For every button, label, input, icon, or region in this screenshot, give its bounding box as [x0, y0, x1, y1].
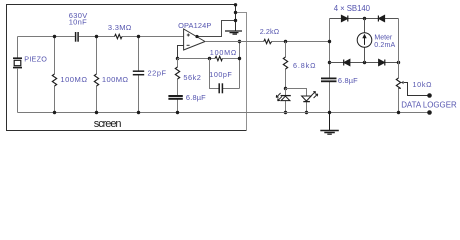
node: output / bridge left top	[328, 40, 331, 43]
piezo PIEZO	[13, 58, 22, 67]
capacitor 100pF	[219, 83, 222, 93]
svg-text:OPA124P: OPA124P	[178, 21, 211, 30]
node: bottom rail junction (100M-1)	[53, 111, 56, 114]
wire: 100M resistor 2 branch	[96, 37, 98, 113]
wire: 100M resistor 1 branch	[54, 37, 56, 113]
op-amp U1 OPA124P	[184, 29, 205, 50]
svg-text:10kΩ: 10kΩ	[413, 80, 433, 89]
LED D1 (cathode up)	[276, 93, 291, 101]
svg-text:PIEZO: PIEZO	[24, 54, 47, 63]
node: ground rail junction	[328, 111, 331, 114]
capacitor 6.8uF (smoothing)	[321, 78, 337, 81]
node: rail / 100M-1 junction	[53, 35, 56, 38]
node: guard tap on op-amp	[195, 35, 198, 38]
svg-text:100MΩ: 100MΩ	[210, 48, 237, 57]
node: rail / 22pF junction	[137, 35, 140, 38]
svg-text:6.8µF: 6.8µF	[186, 93, 206, 102]
diode D3 SB140 (top-left)	[342, 16, 348, 22]
ground (main)	[320, 113, 339, 135]
node: rail / 100M-2 junction	[95, 35, 98, 38]
wire: inverting input branch	[178, 46, 184, 59]
resistor 2.2k zigzag	[264, 39, 272, 43]
wire: LED1 stem	[285, 89, 287, 113]
node: data logger lower terminal	[427, 110, 432, 115]
wire: meter stem	[364, 19, 366, 63]
node: LED junction	[284, 87, 287, 90]
svg-text:100pF: 100pF	[209, 70, 232, 79]
svg-text:6.8kΩ: 6.8kΩ	[293, 61, 316, 70]
capacitor 22pF	[133, 71, 144, 75]
node: inverting input / feedback junction	[176, 57, 179, 60]
svg-text:56k2: 56k2	[183, 73, 201, 82]
node: bridge top center	[363, 17, 366, 20]
svg-text:screen: screen	[94, 118, 122, 130]
resistor 100M (2) zigzag	[94, 74, 98, 86]
diode D5 SB140 (bottom-left)	[344, 60, 350, 66]
node: output / feedback junction	[238, 40, 241, 43]
svg-text:4 × SB140: 4 × SB140	[334, 4, 371, 13]
LED D2 (cathode down)	[302, 91, 318, 101]
node: guard tap on shield	[234, 19, 237, 22]
meter M1 0.2mA	[357, 33, 372, 48]
wire: bridge right branch	[398, 19, 400, 113]
wire: LED2 stem	[286, 89, 307, 113]
wire: 100pF loop	[210, 42, 240, 89]
node: data logger upper terminal	[427, 93, 432, 98]
wire: main input rail	[18, 36, 184, 38]
wire: 56k2 branch	[177, 59, 179, 113]
resistor 56k2 zigzag	[175, 67, 179, 79]
resistor 100M (1) zigzag	[52, 74, 56, 86]
capacitor 10nF 630V	[76, 32, 79, 42]
resistor 3.3M zigzag	[115, 34, 123, 38]
svg-text:22pF: 22pF	[148, 68, 167, 77]
svg-text:6.8µF: 6.8µF	[338, 76, 358, 85]
svg-text:0.2mA: 0.2mA	[374, 42, 395, 49]
resistor 100M feedback zigzag	[215, 56, 222, 60]
svg-text:DATA LOGGER: DATA LOGGER	[401, 99, 457, 109]
resistor 6.8k zigzag	[283, 57, 287, 69]
potentiometer 10k zigzag	[396, 78, 400, 89]
ground (shield)	[225, 31, 242, 34]
node: shield top	[234, 3, 237, 6]
wire: shield ground stem	[235, 5, 237, 31]
capacitor 6.8uF (screen side)	[168, 96, 182, 99]
node: feedback right junction	[238, 57, 241, 60]
svg-text:2.2kΩ: 2.2kΩ	[260, 27, 280, 36]
node: LED1 bottom rail junction	[284, 111, 287, 114]
wire: bridge top rail	[330, 18, 399, 20]
svg-text:10nF: 10nF	[69, 17, 87, 26]
svg-text:3.3MΩ: 3.3MΩ	[108, 23, 132, 32]
node: pot bottom rail junction	[397, 111, 400, 114]
diode D4 SB140 (top-right)	[378, 16, 384, 22]
node: bridge bottom center	[363, 61, 366, 64]
svg-text:Meter: Meter	[374, 34, 392, 41]
node: shield right-edge tap	[234, 11, 237, 14]
wire: guard connection from op-amp to shield	[197, 21, 236, 37]
wire: piezo branch	[17, 37, 19, 113]
wire: bottom rail	[18, 112, 430, 114]
node: bottom rail junction (22pF)	[137, 111, 140, 114]
diode D6 SB140 (bottom-right)	[379, 60, 385, 66]
node: bottom rail junction (6.8uF)	[176, 111, 179, 114]
wire: 6.8k branch	[285, 42, 287, 89]
wire: feedback rail	[178, 58, 240, 60]
node: LED2 bottom rail junction	[305, 111, 308, 114]
svg-text:100MΩ: 100MΩ	[102, 75, 129, 84]
node: bridge bottom right	[397, 61, 400, 64]
node: feedback left junction	[208, 57, 211, 60]
node: bottom rail junction (100M-2)	[95, 111, 98, 114]
wire: smoothing node vertical	[329, 19, 331, 113]
node: 2.2k / 6.8k junction	[284, 40, 287, 43]
wire: op-amp output rail	[205, 41, 330, 43]
node: bridge left bottom	[328, 61, 331, 64]
svg-text:100MΩ: 100MΩ	[60, 75, 87, 84]
wire: 22pF branch	[138, 37, 140, 113]
wire: bridge bottom rail	[330, 62, 399, 64]
screen shield box	[7, 5, 247, 131]
potentiometer wiper arrow	[401, 81, 430, 96]
